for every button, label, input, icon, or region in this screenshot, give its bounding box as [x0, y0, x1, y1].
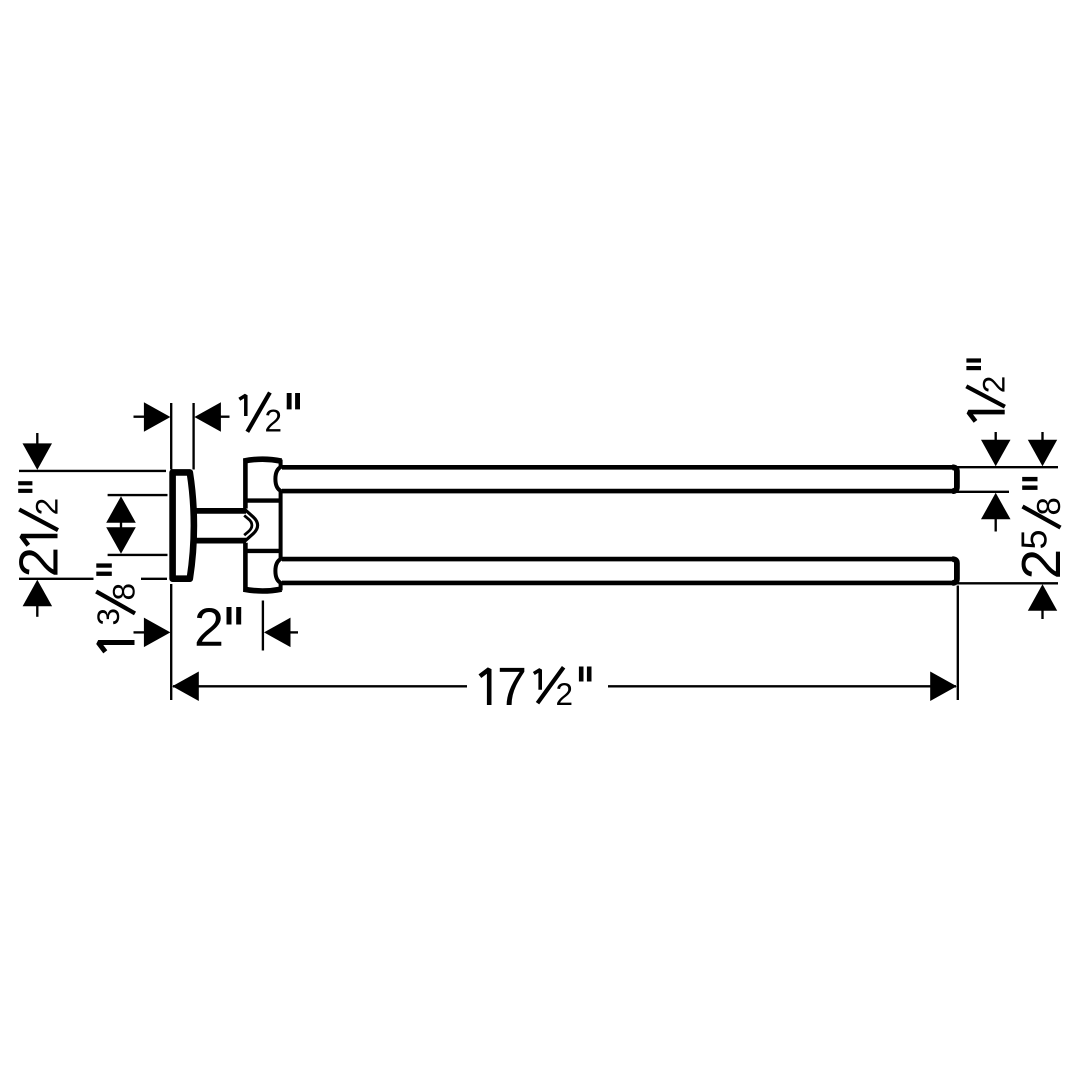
- arrow left end 17 1/2: [172, 672, 199, 702]
- pivot block left edge lower segment: [243, 543, 248, 591]
- pivot block right edge (middle segment): [279, 491, 283, 559]
- arrow tail right: [220, 416, 229, 418]
- pivot block right edge (top segment): [279, 460, 283, 468]
- label: 1 3/8 inch (rotated): [90, 563, 142, 651]
- arrow down toward 1 3/8 lower line: [106, 527, 136, 554]
- pivot block divider upper: [245, 498, 280, 502]
- tail between arrows: [120, 520, 122, 530]
- label: 2 inch (wall to pivot centre): [194, 598, 241, 658]
- label: 2 1/2 inch (rotated): [8, 481, 70, 577]
- pivot block interior: [245, 461, 280, 589]
- stem bottom edge: [196, 538, 247, 544]
- ext line: plate bottom (2 1/2), broken by text: [19, 578, 94, 580]
- top bar right end cap: [952, 467, 957, 491]
- stem cone tip inner: [244, 515, 252, 535]
- label: 1/2 inch (bar dia., rotated): [966, 358, 1011, 421]
- ext line: plate front (vertical, above): [170, 403, 172, 470]
- arrow tail: [134, 631, 145, 633]
- arrow tail up: [36, 433, 38, 444]
- label: 17 1/2 inch (overall length): [480, 657, 592, 717]
- top bar neck scallop: [275, 467, 281, 492]
- ext line: plate top (2 1/2): [19, 470, 166, 472]
- top bar: [282, 467, 957, 491]
- ext line: 1 3/8 lower: [108, 554, 168, 556]
- ext line: top bar top (right): [956, 466, 1058, 468]
- ext line: top bar bottom (right): [956, 491, 1009, 493]
- arrow left-pointing at plate back: [194, 402, 221, 432]
- pivot block bottom cap: [244, 589, 282, 591]
- ext line: pivot centre vertical: [262, 601, 264, 651]
- svg-text:7: 7: [497, 657, 527, 717]
- arrow tail left: [134, 416, 145, 418]
- arrow up col A (1/2): [981, 493, 1011, 520]
- bottom bar right end cap: [952, 559, 957, 583]
- arrow left-pointing at pivot centre: [264, 618, 291, 648]
- arrow up toward 1 3/8 upper line: [106, 496, 136, 523]
- arrow down at plate top: [23, 443, 53, 470]
- arrow right end 17 1/2: [930, 672, 957, 702]
- ext line: bar end vertical (right): [957, 586, 959, 701]
- svg-text:5: 5: [1014, 529, 1055, 549]
- svg-text:2: 2: [976, 376, 1012, 394]
- dim line 17 1/2 right segment: [608, 685, 956, 687]
- ext line: plate back (vertical, above): [192, 403, 194, 470]
- arrow tail down: [36, 606, 38, 617]
- pivot block top cap: [244, 459, 282, 461]
- arrow tail: [290, 631, 298, 633]
- svg-text:8: 8: [106, 583, 142, 601]
- arrow right-pointing at plate front: [144, 402, 171, 432]
- arrow up at plate bottom: [23, 580, 52, 607]
- dim line 17 1/2 left segment: [173, 685, 467, 687]
- arrow up col B (2 5/8): [1028, 584, 1057, 611]
- ext line: 1 3/8 upper: [108, 494, 168, 496]
- arrow down col B (2 5/8): [1028, 440, 1057, 467]
- bottom bar neck scallop: [275, 559, 281, 584]
- svg-text:2: 2: [1010, 549, 1072, 580]
- svg-text:2: 2: [555, 676, 573, 712]
- svg-text:2: 2: [8, 547, 70, 578]
- stem top edge: [196, 508, 247, 514]
- svg-text:8: 8: [1030, 497, 1067, 515]
- svg-text:2: 2: [29, 498, 65, 516]
- bottom bar: [282, 559, 957, 583]
- label: 2 5/8 inch (rotated): [1010, 477, 1072, 580]
- arrow down col A (1/2): [981, 440, 1011, 467]
- label: 1/2 inch (plate depth): [239, 392, 300, 438]
- svg-text:2: 2: [194, 598, 224, 658]
- stem cone tip outer: [245, 509, 258, 541]
- pivot block right edge (bottom segment): [279, 583, 283, 591]
- ext line: bottom bar bottom (right): [956, 582, 1058, 584]
- pivot block divider lower: [245, 549, 280, 553]
- wall plate (escutcheon side view): [173, 472, 194, 578]
- pivot block left edge upper segment: [243, 459, 248, 508]
- svg-text:3: 3: [90, 608, 126, 626]
- arrow right-pointing at wall line: [144, 618, 171, 648]
- svg-text:2: 2: [264, 402, 282, 438]
- ext line: wall vertical (below plate): [170, 584, 172, 700]
